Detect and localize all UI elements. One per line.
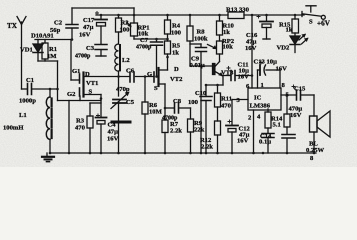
svg-text:C2: C2 (54, 20, 63, 27)
svg-text:+6V: +6V (317, 20, 331, 28)
svg-text:2.2k: 2.2k (201, 144, 213, 151)
svg-text:16V: 16V (290, 112, 302, 119)
svg-text:G1: G1 (72, 68, 80, 75)
svg-text:C6: C6 (126, 68, 135, 75)
svg-text:1M: 1M (47, 53, 57, 60)
svg-text:4700p: 4700p (136, 45, 152, 51)
svg-text:C13 10µ: C13 10µ (254, 59, 278, 66)
svg-text:LM386: LM386 (250, 102, 271, 109)
svg-text:100: 100 (171, 30, 182, 37)
svg-text:2.2k: 2.2k (170, 128, 182, 135)
svg-text:100: 100 (188, 99, 199, 106)
svg-text:G2: G2 (67, 91, 76, 98)
svg-text:R4: R4 (172, 23, 181, 30)
svg-text:D: D (174, 66, 179, 73)
svg-text:IC: IC (254, 95, 262, 102)
svg-text:C8: C8 (173, 98, 182, 105)
svg-text:1: 1 (261, 82, 264, 89)
svg-text:C7: C7 (140, 37, 149, 44)
svg-text:R5: R5 (172, 43, 181, 50)
svg-text:D: D (85, 71, 90, 78)
svg-text:1k: 1k (223, 29, 230, 36)
svg-text:47µ: 47µ (83, 24, 94, 31)
svg-text:1000p: 1000p (19, 98, 36, 105)
svg-text:S: S (89, 89, 93, 96)
svg-text:4700p: 4700p (75, 54, 91, 60)
svg-text:0.01µ: 0.01µ (190, 62, 206, 69)
svg-text:C3: C3 (86, 45, 95, 52)
svg-text:L2: L2 (122, 57, 130, 64)
svg-text:22k: 22k (194, 127, 205, 134)
svg-text:L1: L1 (19, 112, 27, 119)
svg-text:C5: C5 (126, 99, 135, 106)
svg-text:R13 330: R13 330 (226, 7, 250, 14)
svg-text:0.25W: 0.25W (306, 147, 325, 154)
svg-text:R11: R11 (221, 96, 232, 103)
svg-text:C15: C15 (294, 86, 306, 93)
svg-text:G: G (147, 71, 152, 78)
svg-text:R3: R3 (76, 118, 85, 125)
svg-text:16V: 16V (107, 136, 119, 143)
svg-text:R8: R8 (197, 29, 206, 36)
svg-text:0.1µ: 0.1µ (259, 139, 271, 146)
svg-text:16V: 16V (238, 74, 250, 81)
svg-text:R1: R1 (49, 46, 57, 53)
svg-text:1k: 1k (172, 50, 179, 57)
svg-text:S: S (154, 85, 158, 92)
svg-text:C17: C17 (83, 17, 95, 24)
svg-text:16V: 16V (79, 32, 91, 39)
svg-text:VT2: VT2 (170, 76, 183, 83)
svg-text:47µ: 47µ (108, 129, 119, 136)
svg-text:C4: C4 (108, 122, 117, 129)
svg-text:TX: TX (7, 22, 18, 30)
svg-text:470: 470 (75, 125, 86, 132)
svg-text:16V: 16V (245, 45, 257, 52)
svg-text:470p: 470p (116, 86, 130, 93)
svg-text:R2: R2 (121, 20, 130, 27)
svg-text:VD2: VD2 (277, 45, 291, 52)
svg-text:VD1: VD1 (20, 47, 33, 54)
svg-text:C10: C10 (195, 90, 207, 97)
svg-text:1k: 1k (286, 27, 293, 34)
svg-text:470: 470 (221, 103, 232, 110)
svg-text:100: 100 (120, 27, 131, 34)
svg-text:100mH: 100mH (3, 125, 24, 132)
svg-text:16V: 16V (237, 138, 249, 145)
svg-text:5.1: 5.1 (273, 122, 281, 129)
svg-text:16V: 16V (276, 66, 288, 73)
svg-text:S: S (309, 19, 313, 26)
svg-text:100k: 100k (194, 36, 208, 43)
svg-text:VT1: VT1 (86, 80, 98, 87)
svg-text:56p: 56p (50, 27, 61, 34)
svg-text:C1: C1 (26, 77, 34, 84)
svg-text:10k: 10k (223, 44, 234, 51)
svg-text:VT3: VT3 (221, 70, 234, 77)
svg-text:10M: 10M (149, 109, 163, 116)
